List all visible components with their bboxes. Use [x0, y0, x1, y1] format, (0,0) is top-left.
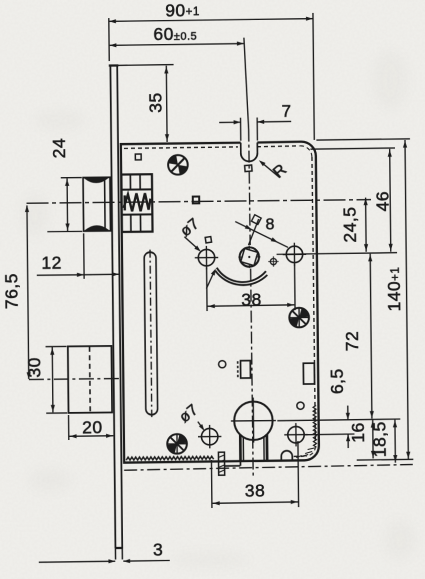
dimension 38 upper — [206, 268, 208, 311]
svg-text:24: 24 — [49, 138, 69, 159]
dimension 20 — [68, 415, 70, 440]
dimension 7 — [240, 118, 242, 141]
svg-text:76,5: 76,5 — [1, 273, 21, 309]
elongated slot — [144, 252, 158, 415]
svg-text:72: 72 — [342, 331, 362, 352]
deadbolt centreline — [29, 378, 123, 381]
dimension 76.5 — [27, 205, 29, 378]
dimension 46 — [310, 148, 394, 149]
faceplate — [110, 66, 115, 548]
cylinder hole — [234, 401, 273, 440]
tab below notch — [245, 165, 252, 172]
dimension 24.5 — [365, 198, 368, 252]
screw hole symbol right — [289, 308, 309, 328]
vertical centreline — [249, 130, 251, 245]
svg-text:35: 35 — [145, 92, 165, 113]
svg-text:7: 7 — [281, 102, 291, 121]
svg-text:3: 3 — [153, 540, 163, 560]
top notch — [240, 143, 242, 153]
fixing lug — [218, 452, 224, 475]
latch spring — [123, 193, 150, 211]
dimension 60±0.5 — [244, 38, 249, 130]
dimension 18.5 — [394, 420, 396, 463]
follower centre ticks — [238, 245, 260, 268]
right tab — [303, 363, 314, 384]
rivet square B — [205, 237, 211, 243]
svg-text:30: 30 — [24, 357, 44, 378]
bracket — [240, 361, 250, 379]
small circle B — [297, 402, 304, 409]
follower hub — [240, 247, 260, 267]
small hole near follower — [270, 258, 276, 264]
latch bolt — [83, 177, 110, 231]
rivet square A — [135, 154, 141, 160]
dimension 35 — [117, 64, 173, 67]
dimension 16 — [372, 420, 374, 458]
svg-text:46: 46 — [372, 191, 392, 212]
bottom datum centreline — [124, 465, 413, 471]
follower square — [241, 248, 258, 265]
svg-text:18,5: 18,5 — [369, 421, 389, 457]
svg-text:38: 38 — [241, 289, 262, 309]
bottom hole right — [288, 426, 305, 443]
node on latch axis — [193, 197, 199, 204]
dimension 6.5 — [347, 406, 349, 420]
svg-text:16: 16 — [348, 422, 368, 443]
cylinder cross — [231, 420, 276, 422]
svg-text:38: 38 — [245, 480, 266, 500]
dimension 30 — [46, 345, 67, 347]
dimension 38 lower — [210, 460, 213, 508]
serrated edge texture — [126, 456, 213, 460]
dimension 24 — [61, 177, 82, 179]
corner serration — [313, 405, 316, 447]
screw hole symbol top — [168, 155, 188, 175]
cylinder axis extension — [277, 419, 400, 421]
svg-text:20: 20 — [82, 417, 103, 437]
latch guide box — [121, 174, 152, 232]
spring arc — [215, 267, 267, 285]
deadbolt — [68, 346, 112, 413]
label R — [261, 162, 280, 178]
hole right of follower — [286, 246, 303, 263]
right bump — [281, 451, 292, 461]
svg-text:12: 12 — [41, 253, 62, 273]
bottom hole left — [201, 428, 218, 445]
bottom holes axis extension — [305, 433, 354, 436]
svg-text:24,5: 24,5 — [340, 206, 360, 242]
svg-text:6,5: 6,5 — [327, 368, 347, 394]
latch centreline — [27, 200, 371, 204]
hole left of follower — [198, 249, 215, 266]
arc leader — [206, 271, 214, 288]
dimension 140+1 — [316, 139, 410, 140]
case inner dashed line — [124, 147, 238, 148]
label square 8 — [251, 215, 261, 225]
small circle A — [219, 361, 226, 368]
svg-text:8: 8 — [265, 216, 275, 233]
dimension 90+1 — [108, 18, 110, 61]
lock case — [121, 142, 319, 463]
screw hole symbol bottom — [167, 434, 187, 454]
follower axis extension — [277, 253, 397, 255]
dimension 12 — [83, 233, 85, 278]
dimension 72 — [370, 254, 372, 419]
dimension 3 — [39, 561, 115, 562]
